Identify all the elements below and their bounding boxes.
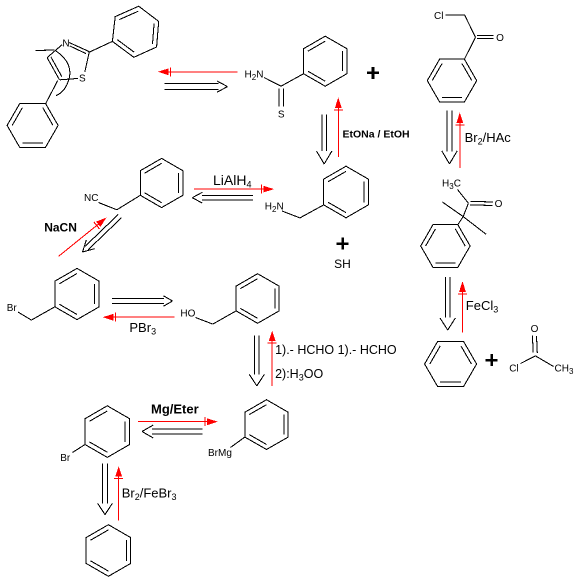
CH3 label [555, 363, 574, 376]
HO label [180, 309, 195, 320]
svg-text:O: O [496, 33, 504, 44]
disconnection mark stub line [36, 49, 55, 52]
Cl label of phenacyl chloride [434, 11, 443, 22]
Br label of bromobenzene [60, 453, 71, 464]
phenyl ring of phenylacetonitrile [140, 158, 183, 207]
label 2):H3OO [275, 367, 323, 383]
black retrosynthetic arrow left (Mg/Eter) [142, 425, 203, 438]
bond CH2 to ring (benzylamine) [300, 205, 324, 218]
bond Cl to carbonyl C (acetyl chloride) [521, 356, 536, 364]
label EtONa / EtOH [343, 129, 410, 141]
C=O double bond (acetyl chloride) [532, 336, 537, 354]
H2N label of thiobenzamide [245, 70, 264, 83]
Br label of benzyl bromide [7, 303, 18, 314]
svg-text:CH3​: CH3​ [555, 363, 574, 376]
svg-text:H2​N: H2​N [265, 202, 284, 215]
svg-text:EtONa / EtOH: EtONa / EtOH [343, 129, 410, 141]
bond Cl-CH2 [446, 14, 465, 16]
C=S double bond [279, 89, 284, 107]
Cl label of acetyl chloride [509, 364, 518, 375]
bond Br-CH2 [18, 312, 31, 320]
black retrosynthetic arrow down (Br2/FeBr3) [98, 463, 113, 514]
svg-text:NaCN: NaCN [44, 221, 77, 235]
black retrosynthetic arrow down-left (NaCN) [83, 215, 122, 253]
bond H3C to carbonyl C [458, 190, 469, 204]
O label (phenacyl) [496, 33, 504, 44]
black retrosynthetic arrow down (Br2/HAc) [442, 110, 457, 163]
benzene ring (bottom) [86, 525, 131, 577]
bond C to phenyl (thiobenzamide) [281, 74, 304, 87]
black retrosynthetic arrow left (LiAlH4) [192, 192, 253, 203]
bond CH2 to ring (benzyl bromide) [31, 307, 54, 320]
red arrow left (PBr3) [103, 313, 175, 322]
bond CH2 to ring (benzyl alcohol) [213, 311, 236, 324]
bond carbonyl C to ring (phenacyl) [464, 37, 475, 59]
phenyl ring of benzyl bromide [55, 268, 99, 319]
NC label [84, 193, 98, 204]
SH label [334, 257, 351, 271]
svg-text:Mg/Eter: Mg/Eter [151, 402, 199, 417]
thiazole S label [79, 74, 86, 85]
svg-text:Br: Br [60, 453, 71, 464]
plus sign (benzylamine + SH) [337, 238, 349, 250]
BrMg label [208, 448, 232, 459]
svg-text:Br2​/FeBr3​: Br2​/FeBr3​ [122, 486, 177, 503]
svg-text:SH: SH [334, 257, 351, 271]
svg-text:H2​N: H2​N [245, 70, 264, 83]
phenyl ring of ketone [421, 225, 470, 268]
svg-text:1).- HCHO 1).- HCHO: 1).- HCHO 1).- HCHO [275, 343, 397, 357]
svg-text:FeCl3​: FeCl3​ [466, 298, 498, 315]
bond thiazole C2 to phenyl A [89, 41, 112, 52]
phenyl ring of bromobenzene [85, 406, 130, 458]
C=O double bond (ketone) [470, 201, 493, 205]
svg-text:LiAlH4​: LiAlH4​ [213, 172, 251, 190]
benzene ring (Friedel-Crafts) [425, 342, 477, 387]
label Mg/Eter [151, 402, 199, 417]
disconnection arc (curved parenthesis) [56, 51, 70, 96]
svg-text:O: O [495, 199, 503, 210]
red arrow right (LiAlH4) [194, 185, 274, 194]
red arrow pointing left (row 1) [158, 67, 238, 76]
red arrow up (EtONa) [334, 97, 343, 157]
bond ring to Br (bromobenzene) [73, 445, 86, 453]
phenyl ring of PhMgBr [245, 400, 288, 450]
svg-text:2):H3​OO: 2):H3​OO [275, 367, 323, 383]
red arrow up (HCHO) [268, 331, 277, 387]
plus sign (row 1) [367, 67, 379, 79]
bond C-CH3 (acetyl chloride) [536, 356, 554, 367]
red arrow up (Br2/HAc) [455, 113, 464, 169]
H3C label [442, 179, 461, 192]
label FeCl3 [466, 298, 498, 315]
svg-text:PBr3​: PBr3​ [129, 320, 156, 337]
bond CH2-C carbonyl [465, 15, 476, 38]
svg-text:N: N [62, 38, 69, 49]
label PBr3 [129, 320, 156, 337]
H2N label of benzylamine [265, 202, 284, 215]
S label of thiobenzamide [278, 110, 285, 121]
black retrosynthetic arrow right (PBr3) [112, 296, 172, 306]
O label (acetyl chloride) [531, 324, 539, 335]
svg-text:O: O [531, 324, 539, 335]
svg-text:H3​C: H3​C [442, 179, 461, 192]
label Br2/HAc [465, 130, 512, 147]
black retrosynthetic arrow down (HCHO) [249, 336, 264, 386]
bond N-C of thiobenzamide [264, 78, 281, 87]
red arrow right (Mg/Eter) [138, 417, 218, 426]
bond ring to Mg (PhMgBr) [231, 437, 245, 448]
O label (ketone) [495, 199, 503, 210]
label 1).- HCHO 1).- HCHO [275, 343, 397, 357]
bond N-CH2 (benzylamine) [282, 211, 300, 218]
phenyl ring A (top right of thiazole) [112, 6, 158, 57]
red arrow up (FeCl3) [458, 281, 467, 332]
svg-text:Cl: Cl [434, 11, 443, 22]
bond quaternary C to ring (ketone) [458, 217, 463, 225]
thiazole ring of 2,4-diphenylthiazole [47, 43, 89, 80]
phenyl ring of benzyl alcohol [236, 274, 279, 324]
svg-text:Cl: Cl [509, 364, 518, 375]
bond O-CH2 (benzyl alcohol) [196, 318, 213, 325]
svg-text:BrMg: BrMg [208, 448, 232, 459]
label Br2/FeBr3 [122, 486, 177, 503]
thiazole N label [62, 38, 69, 49]
bond C-CH2 (nitrile) [99, 203, 117, 210]
methyl stub up-left [443, 202, 464, 217]
phenyl ring of thiobenzamide [304, 36, 347, 86]
phenyl ring of benzylamine [324, 166, 369, 218]
plus sign (benzene + acetyl chloride) [486, 354, 498, 366]
methyl stub down-right [463, 217, 486, 235]
label NaCN [44, 221, 77, 235]
svg-text:Br2​/HAc: Br2​/HAc [465, 130, 512, 147]
svg-text:Br: Br [7, 303, 18, 314]
black retrosynthetic arrow down (EtONa) [317, 115, 332, 165]
black retrosynthetic arrow pointing right (row 1) [165, 81, 228, 92]
bond CH2 to ring (nitrile) [117, 195, 141, 210]
C=O double bond (phenacyl) [477, 36, 494, 39]
svg-text:S: S [278, 110, 285, 121]
red arrow diagonal up-right (NaCN) [59, 218, 107, 257]
phenyl ring B (below thiazole) [7, 103, 58, 147]
red arrow up (Br2/FeBr3) [114, 466, 123, 520]
svg-text:HO: HO [180, 309, 195, 320]
phenyl ring of phenacyl chloride [427, 59, 476, 102]
bond thiazole C5 to phenyl B [46, 80, 58, 103]
bond carbonyl to quaternary C [463, 203, 468, 216]
black retrosynthetic arrow down (FeCl3) [440, 277, 455, 330]
svg-text:NC: NC [84, 193, 98, 204]
svg-text:S: S [79, 74, 86, 85]
label LiAlH4 [213, 172, 251, 190]
